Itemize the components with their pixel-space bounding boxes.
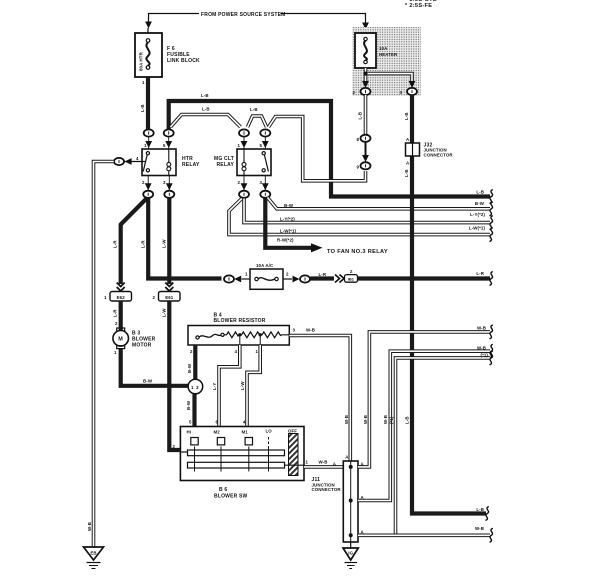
svg-text:80A HTR: 80A HTR: [139, 51, 144, 71]
svg-text:L-B: L-B: [202, 107, 210, 112]
svg-text:R-W(*2): R-W(*2): [277, 237, 294, 242]
svg-text:10A A/C: 10A A/C: [256, 263, 274, 268]
svg-text:M2: M2: [214, 430, 221, 435]
svg-text:BLOWER SW: BLOWER SW: [214, 494, 248, 500]
svg-text:L-B: L-B: [140, 104, 145, 112]
svg-text:W-B: W-B: [319, 460, 328, 465]
svg-text:W-B: W-B: [477, 345, 486, 350]
svg-text:L-Y: L-Y: [212, 383, 217, 390]
svg-text:M: M: [118, 337, 123, 343]
svg-text:OFF: OFF: [288, 429, 297, 434]
svg-text:L-B: L-B: [404, 112, 409, 120]
svg-text:EB: EB: [90, 551, 96, 556]
svg-text:L-W: L-W: [162, 239, 167, 248]
svg-text:IG: IG: [348, 550, 353, 555]
svg-text:(*1): (*1): [389, 416, 394, 424]
svg-text:HEATER: HEATER: [379, 52, 398, 57]
svg-text:L-B: L-B: [201, 93, 209, 98]
svg-text:B-W: B-W: [143, 378, 153, 383]
svg-text:W-B: W-B: [363, 415, 368, 424]
svg-text:L-Y(*2): L-Y(*2): [470, 212, 485, 217]
svg-text:LO: LO: [266, 429, 273, 434]
svg-text:(*1): (*1): [481, 353, 489, 358]
svg-text:W-B: W-B: [383, 415, 388, 424]
svg-text:RELAY: RELAY: [217, 162, 235, 168]
svg-text:FROM POWER SOURCE SYSTEM: FROM POWER SOURCE SYSTEM: [201, 12, 286, 18]
svg-text:L-W: L-W: [162, 308, 167, 317]
svg-text:* 2:5S-FE: * 2:5S-FE: [405, 3, 432, 9]
svg-text:L-B: L-B: [476, 507, 484, 512]
svg-text:MOTOR: MOTOR: [132, 343, 152, 349]
svg-text:L-W(*1): L-W(*1): [280, 229, 297, 234]
svg-text:W-B: W-B: [344, 415, 349, 424]
svg-text:B-W: B-W: [475, 201, 485, 206]
svg-text:E62: E62: [117, 295, 126, 300]
svg-text:10A: 10A: [379, 46, 388, 51]
svg-text:W-B: W-B: [477, 326, 486, 331]
svg-text:L-B: L-B: [250, 107, 258, 112]
svg-text:HI: HI: [187, 430, 192, 435]
svg-text:BLOWER RESISTOR: BLOWER RESISTOR: [214, 318, 266, 324]
svg-text:IB1: IB1: [348, 277, 355, 282]
svg-text:B-W: B-W: [284, 203, 294, 208]
svg-text:W-B: W-B: [475, 526, 484, 531]
svg-text:L-B: L-B: [476, 190, 484, 195]
svg-text:B-W: B-W: [186, 400, 191, 410]
svg-text:L-R: L-R: [141, 240, 146, 248]
svg-text:L-R: L-R: [476, 271, 484, 276]
svg-text:L-R: L-R: [113, 309, 118, 317]
svg-text:M1: M1: [242, 430, 249, 435]
svg-text:LINK BLOCK: LINK BLOCK: [167, 58, 200, 64]
svg-text:B-W: B-W: [187, 363, 192, 373]
svg-text:L-B: L-B: [358, 112, 363, 120]
svg-text:L-R: L-R: [319, 272, 327, 277]
svg-text:L-B: L-B: [405, 416, 410, 424]
svg-text:L-W: L-W: [240, 381, 245, 390]
svg-text:L-R: L-R: [113, 240, 118, 248]
svg-text:TO FAN NO.3 RELAY: TO FAN NO.3 RELAY: [327, 249, 388, 255]
svg-text:CONNECTOR: CONNECTOR: [424, 152, 454, 157]
svg-text:B 6: B 6: [219, 487, 227, 493]
svg-text:L-Y(*2): L-Y(*2): [280, 217, 295, 222]
svg-text:W-B: W-B: [87, 522, 92, 531]
svg-text:CONNECTOR: CONNECTOR: [312, 487, 342, 492]
svg-text:RELAY: RELAY: [182, 162, 200, 168]
svg-text:L-B: L-B: [404, 169, 409, 177]
svg-text:E61: E61: [165, 295, 174, 300]
svg-text:L-W(*1): L-W(*1): [469, 226, 486, 231]
svg-text:W-B: W-B: [306, 328, 315, 333]
